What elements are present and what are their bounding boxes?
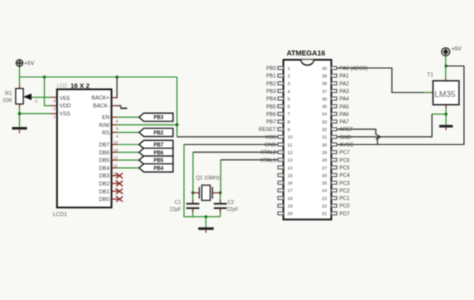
- svg-text:28: 28: [322, 158, 328, 163]
- svg-text:11: 11: [288, 142, 293, 147]
- svg-text:PB7: PB7: [154, 143, 164, 149]
- svg-text:PB6: PB6: [154, 150, 164, 156]
- svg-text:17: 17: [288, 188, 294, 193]
- svg-text:R1: R1: [5, 91, 12, 97]
- svg-text:LCD1: LCD1: [53, 212, 67, 218]
- svg-text:GND: GND: [340, 135, 352, 141]
- svg-text:DB1: DB1: [99, 189, 110, 195]
- svg-text:+5V: +5V: [452, 47, 462, 53]
- svg-text:VSS: VSS: [60, 112, 71, 118]
- svg-text:GND: GND: [264, 143, 276, 149]
- svg-text:PC3: PC3: [340, 181, 350, 187]
- svg-text:31: 31: [322, 135, 328, 140]
- svg-text:PB3: PB3: [266, 89, 276, 95]
- svg-text:3: 3: [288, 81, 291, 86]
- svg-text:DB0: DB0: [99, 197, 110, 203]
- svg-text:22pF: 22pF: [227, 207, 238, 213]
- svg-text:38: 38: [322, 81, 328, 86]
- svg-text:BACK+: BACK+: [92, 96, 110, 102]
- svg-text:PA1: PA1: [340, 74, 350, 80]
- svg-text:XTAL2: XTAL2: [261, 150, 277, 156]
- svg-text:25: 25: [322, 181, 328, 186]
- svg-text:PC5: PC5: [340, 165, 350, 171]
- svg-text:PB6: PB6: [266, 112, 276, 118]
- svg-text:13: 13: [288, 158, 294, 163]
- svg-text:33: 33: [322, 119, 328, 124]
- svg-text:PC2: PC2: [340, 188, 350, 194]
- svg-text:PA7: PA7: [340, 120, 350, 126]
- svg-text:15: 15: [288, 173, 294, 178]
- svg-text:DB6: DB6: [99, 150, 110, 156]
- svg-text:37: 37: [322, 89, 328, 94]
- svg-text:PB5: PB5: [154, 158, 164, 164]
- svg-text:10: 10: [288, 135, 294, 140]
- svg-text:PC1: PC1: [340, 196, 350, 202]
- svg-text:14: 14: [114, 141, 118, 145]
- svg-text:1: 1: [53, 115, 55, 119]
- svg-text:4: 4: [116, 135, 118, 139]
- svg-text:39: 39: [322, 73, 328, 78]
- svg-text:PB3: PB3: [154, 115, 164, 121]
- svg-text:RESET: RESET: [259, 127, 277, 133]
- svg-text:VDD: VDD: [60, 104, 71, 110]
- svg-text:C1: C1: [175, 200, 182, 206]
- svg-text:30: 30: [322, 142, 328, 147]
- svg-text:VEE: VEE: [60, 96, 71, 102]
- svg-text:10K: 10K: [3, 98, 13, 104]
- svg-text:10: 10: [114, 172, 118, 176]
- svg-text:PB7: PB7: [266, 120, 276, 126]
- svg-text:13: 13: [114, 148, 118, 152]
- svg-text:32: 32: [322, 127, 328, 132]
- svg-text:PA5: PA5: [340, 104, 350, 110]
- svg-text:16 X 2: 16 X 2: [71, 83, 90, 90]
- svg-text:16: 16: [288, 181, 294, 186]
- svg-text:DB5: DB5: [99, 158, 110, 164]
- svg-text:7: 7: [115, 195, 117, 199]
- svg-text:36: 36: [322, 96, 328, 101]
- svg-text:PB2: PB2: [266, 81, 276, 87]
- svg-text:PD7: PD7: [340, 211, 350, 217]
- svg-text:5: 5: [116, 127, 118, 131]
- svg-text:PA6: PA6: [340, 112, 350, 118]
- svg-text:7: 7: [288, 112, 291, 117]
- svg-text:PA2: PA2: [340, 81, 350, 87]
- svg-text:PA3: PA3: [340, 89, 350, 95]
- svg-text:VCC: VCC: [265, 135, 276, 141]
- svg-text:AVCC: AVCC: [340, 143, 354, 149]
- svg-text:18: 18: [288, 196, 294, 201]
- svg-text:PB1: PB1: [266, 74, 276, 80]
- svg-text:DB2: DB2: [99, 182, 110, 188]
- svg-text:R/W: R/W: [99, 123, 110, 129]
- svg-text:5: 5: [288, 96, 291, 101]
- svg-text:11: 11: [114, 164, 118, 168]
- svg-text:PC0: PC0: [340, 204, 350, 210]
- svg-text:19: 19: [288, 204, 294, 209]
- svg-text:6: 6: [288, 104, 291, 109]
- svg-text:AREF: AREF: [340, 127, 354, 133]
- svg-text:PB5: PB5: [266, 104, 276, 110]
- svg-text:PB4: PB4: [266, 97, 276, 103]
- svg-text:22: 22: [322, 204, 328, 209]
- svg-text:3: 3: [53, 99, 55, 103]
- svg-text:T1: T1: [427, 73, 433, 79]
- svg-text:29: 29: [322, 150, 328, 155]
- svg-text:27: 27: [322, 165, 328, 170]
- svg-text:40: 40: [322, 66, 328, 71]
- svg-text:12: 12: [288, 150, 294, 155]
- svg-text:6: 6: [116, 119, 118, 123]
- svg-text:20: 20: [288, 211, 294, 216]
- svg-text:1: 1: [288, 66, 291, 71]
- svg-text:23: 23: [322, 196, 328, 201]
- svg-text:Q1 10MHz: Q1 10MHz: [196, 176, 220, 182]
- svg-text:PC6: PC6: [340, 158, 350, 164]
- svg-text:BACK-: BACK-: [93, 104, 110, 110]
- svg-text:2: 2: [53, 107, 55, 111]
- svg-text:8: 8: [288, 119, 291, 124]
- svg-text:14: 14: [288, 165, 294, 170]
- svg-text:35: 35: [322, 104, 328, 109]
- svg-text:4: 4: [288, 89, 291, 94]
- svg-text:34: 34: [322, 112, 328, 117]
- svg-text:8: 8: [115, 187, 117, 191]
- svg-text:ATMEGA16: ATMEGA16: [287, 49, 326, 58]
- svg-text:EN: EN: [102, 115, 110, 121]
- svg-text:26: 26: [322, 173, 328, 178]
- svg-text:PB0: PB0: [266, 66, 276, 72]
- svg-text:22pF: 22pF: [170, 207, 181, 213]
- svg-text:9: 9: [288, 127, 291, 132]
- svg-text:PC7: PC7: [340, 150, 350, 156]
- svg-text:LM35: LM35: [435, 89, 456, 99]
- svg-text:RS: RS: [102, 130, 110, 136]
- svg-text:PA4: PA4: [340, 97, 350, 103]
- svg-text:24: 24: [322, 188, 328, 193]
- svg-text:XTAL1: XTAL1: [261, 158, 277, 164]
- svg-text:DB4: DB4: [99, 166, 110, 172]
- svg-text:12: 12: [114, 156, 118, 160]
- svg-text:DB3: DB3: [99, 174, 110, 180]
- svg-text:9: 9: [115, 180, 117, 184]
- svg-text:PB4: PB4: [154, 166, 164, 172]
- svg-text:PA0 (ADC0): PA0 (ADC0): [340, 66, 368, 72]
- svg-text:DB7: DB7: [99, 143, 110, 149]
- svg-text:+5V: +5V: [24, 61, 34, 67]
- svg-text:LCD: LCD: [57, 83, 67, 89]
- svg-text:21: 21: [322, 211, 328, 216]
- svg-text:PB2: PB2: [154, 130, 164, 136]
- svg-text:PC4: PC4: [340, 173, 350, 179]
- svg-text:C2: C2: [228, 200, 235, 206]
- svg-text:2: 2: [288, 73, 291, 78]
